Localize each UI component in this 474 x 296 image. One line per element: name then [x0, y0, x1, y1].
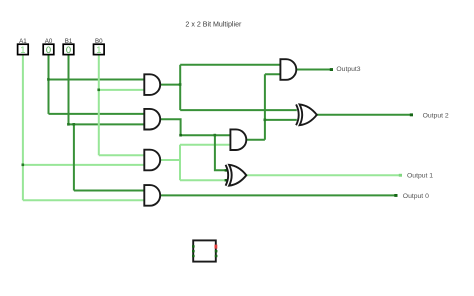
wire A1 vertical	[22, 55, 24, 200]
wire U5 output (Output3)	[296, 69, 331, 71]
and gate U5 output3	[280, 59, 296, 80]
svg-text:0: 0	[46, 44, 51, 55]
wire U3 output to vertical	[246, 139, 265, 141]
output node Output0 tip	[394, 194, 397, 197]
svg-text:1: 1	[96, 44, 101, 55]
and gate AND1	[144, 74, 160, 95]
wire A0 vertical	[48, 55, 50, 114]
and gate AND4	[144, 185, 160, 206]
junction B1 branch	[73, 123, 76, 126]
node XOR1 bottom input tip	[225, 179, 228, 182]
wire junction to XOR1 top	[215, 135, 226, 170]
wire B0 to AND3 top	[99, 154, 145, 156]
node AND1 bottom input tip	[144, 89, 146, 91]
node AND3 top input tip	[144, 154, 146, 156]
wire B0 vertical	[98, 55, 100, 155]
wire AND4 output (Output 0)	[160, 194, 396, 196]
and gate AND2	[144, 109, 160, 130]
wire B1 vertical	[68, 55, 70, 125]
wire AND1 output to branch vertical	[160, 84, 180, 86]
node AND4 bottom input tip	[144, 199, 146, 201]
xor gate XOR2 output2	[296, 104, 317, 125]
wire AND2 output	[160, 119, 231, 135]
wire XOR1 output (Output 1)	[246, 174, 400, 176]
wire A0 to AND1 top	[49, 79, 145, 81]
junction AND1 out	[179, 83, 182, 86]
junction U3 out vertical	[264, 119, 267, 122]
subcircuit box	[193, 240, 216, 261]
output node Output2 tip	[410, 113, 413, 116]
xor gate XOR1 output1	[226, 165, 247, 186]
subcircuit right pins green	[215, 250, 218, 252]
junction AND2 branch	[214, 134, 217, 137]
wire vertical x264.9	[264, 74, 266, 139]
node B1 corner	[67, 123, 70, 126]
svg-text:Output 1: Output 1	[407, 173, 433, 180]
junction A0/AND1	[47, 78, 50, 81]
and gate AND3	[144, 150, 160, 171]
wire XOR2 output (Output 2)	[317, 114, 412, 116]
node XOR1 top input tip	[225, 169, 228, 172]
wire B1 to AND2 bottom	[69, 123, 145, 125]
svg-text:Output 2: Output 2	[423, 113, 449, 120]
wire to U5 bottom input	[265, 73, 281, 75]
wire AND3 output	[160, 159, 180, 161]
wire B1 branch to AND4 top	[74, 190, 145, 192]
wire B0 to AND1 bottom	[99, 89, 145, 91]
svg-text:Output 0: Output 0	[403, 193, 429, 200]
svg-text:0: 0	[66, 44, 71, 55]
wire to XOR2 top input	[180, 109, 297, 111]
wire to XOR1 bottom input	[180, 179, 226, 181]
node AND2 branch corner	[179, 134, 182, 137]
node AND3 bottom input tip	[144, 164, 146, 166]
junction B0/AND1	[97, 89, 100, 92]
wire branch vertical x180	[179, 65, 181, 110]
wire AND3 branch vertical	[179, 145, 181, 181]
wire to U5 top input	[180, 64, 281, 66]
input box B1	[63, 44, 74, 54]
input box A0	[43, 44, 54, 54]
output node Output3 tip	[330, 68, 333, 71]
junction A1/AND3	[22, 164, 25, 167]
wire A1 to AND4 bottom	[23, 199, 145, 201]
svg-text:1: 1	[20, 44, 25, 55]
subcircuit left pins	[192, 245, 195, 247]
and gate U3 carry	[230, 129, 246, 150]
wire A0 to AND2 top	[49, 113, 145, 115]
wire to XOR2 bottom input	[265, 119, 297, 121]
output node Output1 tip	[399, 174, 402, 177]
subcircuit right pin red	[215, 245, 218, 249]
input box B0	[94, 44, 105, 54]
input box A1	[18, 44, 29, 54]
wire to U3 bottom input	[180, 144, 231, 146]
wire B1 branch vertical	[73, 124, 75, 190]
wire A1 to AND3 bottom	[23, 164, 145, 166]
node U3 bottom input tip	[230, 144, 232, 146]
svg-text:Output3: Output3	[336, 66, 360, 73]
svg-text:2 x 2 Bit Multiplier: 2 x 2 Bit Multiplier	[185, 21, 242, 29]
